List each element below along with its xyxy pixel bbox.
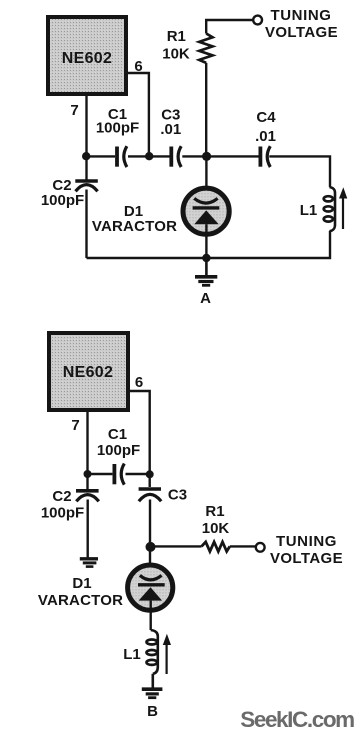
svg-text:TUNING: TUNING	[270, 7, 331, 24]
terminal TUNING VOLTAGE (top)	[253, 16, 262, 25]
label C3 .01 (top)	[160, 107, 181, 139]
wire L1 to ground B	[152, 674, 155, 688]
wire C2 top (pin7 node to C2)	[86, 474, 88, 489]
svg-text:VOLTAGE: VOLTAGE	[265, 24, 338, 41]
svg-text:C2: C2	[52, 488, 71, 505]
svg-text:D1: D1	[72, 575, 91, 592]
svg-text:L1: L1	[300, 202, 318, 219]
wire bottom rail (top circuit)	[87, 231, 331, 258]
label C2 100pF (bottom)	[41, 488, 84, 522]
svg-text:VARACTOR: VARACTOR	[92, 218, 177, 235]
wire left vertical to C2	[85, 156, 87, 179]
svg-text:VOLTAGE: VOLTAGE	[270, 550, 343, 567]
ground symbol below C2	[80, 559, 98, 567]
svg-text:R1: R1	[167, 28, 186, 45]
svg-text:100pF: 100pF	[96, 120, 139, 137]
capacitor C1 (top)	[117, 146, 127, 167]
wire C3 bottom through R1 node to varactor	[149, 500, 151, 585]
label C2 100pF (top)	[41, 177, 84, 209]
junction node at pin6 wire (top)	[145, 152, 153, 160]
varactor D1 (bottom)	[128, 565, 173, 610]
ground symbol B	[142, 689, 163, 698]
resistor R1 (bottom) zigzag	[202, 542, 230, 552]
arrow current direction (top L1)	[339, 187, 347, 229]
junction node at ground A	[202, 254, 210, 262]
capacitor C3 (top)	[171, 146, 181, 167]
label TUNING VOLTAGE (bottom)	[270, 533, 343, 567]
svg-text:.01: .01	[160, 121, 181, 138]
junction node pin7/C1 (bottom)	[84, 470, 92, 478]
capacitor C1 (bottom)	[114, 464, 124, 485]
svg-text:TUNING: TUNING	[276, 533, 337, 550]
wire node to varactor top	[205, 156, 207, 207]
resistor R1 (top) zigzag	[199, 34, 212, 63]
svg-text:SeekIC.com: SeekIC.com	[240, 707, 354, 732]
svg-text:VARACTOR: VARACTOR	[38, 592, 123, 609]
svg-text:100pF: 100pF	[97, 442, 140, 459]
junction node R1/C3 (bottom)	[146, 542, 156, 552]
arrow current direction (bottom L1)	[163, 634, 171, 674]
svg-text:10K: 10K	[162, 46, 190, 63]
svg-text:C3: C3	[168, 487, 187, 504]
junction node pin6/C1 (bottom)	[146, 470, 154, 478]
IC U2 NE602	[49, 333, 128, 410]
svg-text:C4: C4	[256, 109, 276, 126]
svg-text:L1: L1	[123, 646, 141, 663]
svg-text:NE602: NE602	[62, 50, 112, 67]
svg-text:.01: .01	[255, 128, 276, 145]
junction node at R1/varactor (top)	[202, 152, 211, 161]
wire tuning voltage terminal to R1 top	[206, 20, 254, 34]
label R1 10K (top)	[162, 28, 190, 63]
svg-text:7: 7	[71, 417, 79, 434]
ground symbol A	[195, 258, 217, 285]
svg-text:R1: R1	[205, 503, 224, 520]
wire main horizontal (top circuit)	[87, 156, 331, 187]
junction node at pin7/C1 (top)	[82, 152, 90, 160]
wire varactor bottom to L1	[149, 601, 151, 630]
label C1 100pF (top)	[96, 106, 139, 137]
svg-text:100pF: 100pF	[41, 192, 84, 209]
label TUNING VOLTAGE (top)	[265, 7, 338, 41]
IC U1 NE602	[48, 17, 126, 94]
inductor L1 (bottom) coil	[147, 630, 158, 674]
capacitor C3 (bottom)	[139, 489, 162, 501]
wire horizontal C1 branch (bottom circuit)	[88, 473, 150, 475]
capacitor C2 (bottom)	[76, 491, 99, 502]
wire varactor bottom to bottom rail	[205, 224, 207, 258]
label D1 VARACTOR (top)	[92, 203, 177, 235]
wire C2 bottom to bottom rail	[85, 190, 87, 259]
svg-text:7: 7	[70, 102, 78, 119]
svg-text:B: B	[147, 703, 158, 720]
wire R1 to terminal (bottom)	[230, 545, 256, 547]
wire pin 6 of U2 to C3 branch	[126, 391, 150, 474]
wire C2 bottom to ground	[86, 500, 88, 558]
wire pin 6 of U1 to node C1/C3	[126, 73, 149, 156]
svg-text:NE602: NE602	[63, 364, 113, 381]
svg-text:6: 6	[135, 374, 143, 391]
capacitor C4 (top)	[260, 146, 270, 167]
label C1 100pF (bottom)	[97, 426, 140, 459]
capacitor C2 (top)	[75, 181, 98, 191]
wire R1 bottom to main node	[205, 63, 207, 156]
inductor L1 (top) coil	[324, 187, 335, 231]
wire C3 top (pin6 node to C3)	[148, 474, 150, 487]
label R1 10K (bottom)	[202, 503, 230, 537]
svg-text:C1: C1	[108, 426, 127, 443]
wire pin 7 of U2 down	[86, 410, 88, 474]
wire R1 branch (bottom)	[150, 545, 202, 547]
varactor D1 (top)	[183, 188, 229, 234]
svg-text:100pF: 100pF	[41, 505, 84, 522]
label D1 VARACTOR (bottom)	[38, 575, 123, 609]
svg-text:6: 6	[134, 58, 142, 75]
wire pin 7 of U1 down to left node	[85, 94, 87, 156]
svg-text:10K: 10K	[202, 520, 230, 537]
label C4 .01 (top)	[255, 109, 276, 145]
svg-text:A: A	[200, 290, 211, 307]
terminal TUNING VOLTAGE (bottom)	[256, 543, 265, 552]
